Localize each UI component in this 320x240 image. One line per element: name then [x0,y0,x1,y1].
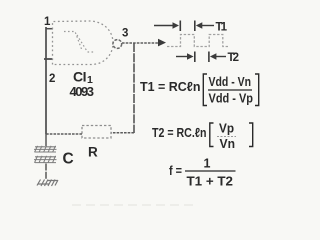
svg-text:T2 = RC.ℓn: T2 = RC.ℓn [152,125,207,140]
resistor R [82,126,111,139]
faint scan smudge [72,204,195,206]
output bubble [113,40,122,49]
svg-text:2: 2 [49,73,55,85]
svg-text:CI: CI [73,69,87,85]
wire: capacitor to ground [45,164,47,180]
capacitor C top plate [34,146,57,153]
formula f = 1/(T1+T2) [169,157,236,189]
svg-text:1: 1 [44,16,51,28]
svg-text:T2: T2 [228,52,240,64]
formula T2 = RC.ln[Vp/Vn] [152,122,253,152]
svg-text:T1 = RCℓn: T1 = RCℓn [140,79,201,94]
schmitt hysteresis symbol [64,32,96,53]
timing marker T1: right arrow [196,22,203,28]
pin 2 stub [44,58,52,60]
svg-text:T1: T1 [216,22,228,34]
bottom wire left segment [46,133,82,135]
svg-text:Vdd - Vn: Vdd - Vn [209,75,252,89]
output arrowhead [158,39,166,47]
svg-text:T1 + T2: T1 + T2 [187,174,234,189]
svg-text:Vdd - Vp: Vdd - Vp [209,92,254,106]
svg-text:f =: f = [169,163,182,178]
svg-text:1: 1 [204,157,211,171]
timing marker T2: right arrow [210,53,217,59]
timing marker T2: left bar [194,52,196,63]
svg-text:C: C [63,151,74,168]
svg-text:Vn: Vn [220,137,236,151]
bottom wire right segment [111,132,134,134]
output wire [122,42,158,44]
ground symbol [37,180,58,187]
waveform (output square wave, light sketch) [167,35,228,47]
gate CI1 4093 schmitt NAND body [53,21,114,65]
wire: node to capacitor [45,134,47,146]
svg-text:3: 3 [122,28,128,40]
wire: input rail (pins 1+2 tied, down to RC node) [45,27,47,134]
timing marker T1: left arrow [154,25,174,27]
timing marker T2: right bar [208,52,210,63]
feedback wire: down from output [133,43,135,133]
capacitor C bottom plate [34,156,57,163]
svg-text:R: R [88,145,98,160]
timing marker T1: left bar [179,21,181,32]
timing marker T1: right bar [194,21,196,32]
formula T1 = RC ln[(Vdd-Vn)/(Vdd-Vp)] [140,74,259,106]
svg-text:4093: 4093 [70,84,95,99]
timing marker T2: left arrow [176,56,188,58]
svg-text:Vp: Vp [219,122,234,136]
pin 1 stub [46,28,53,30]
